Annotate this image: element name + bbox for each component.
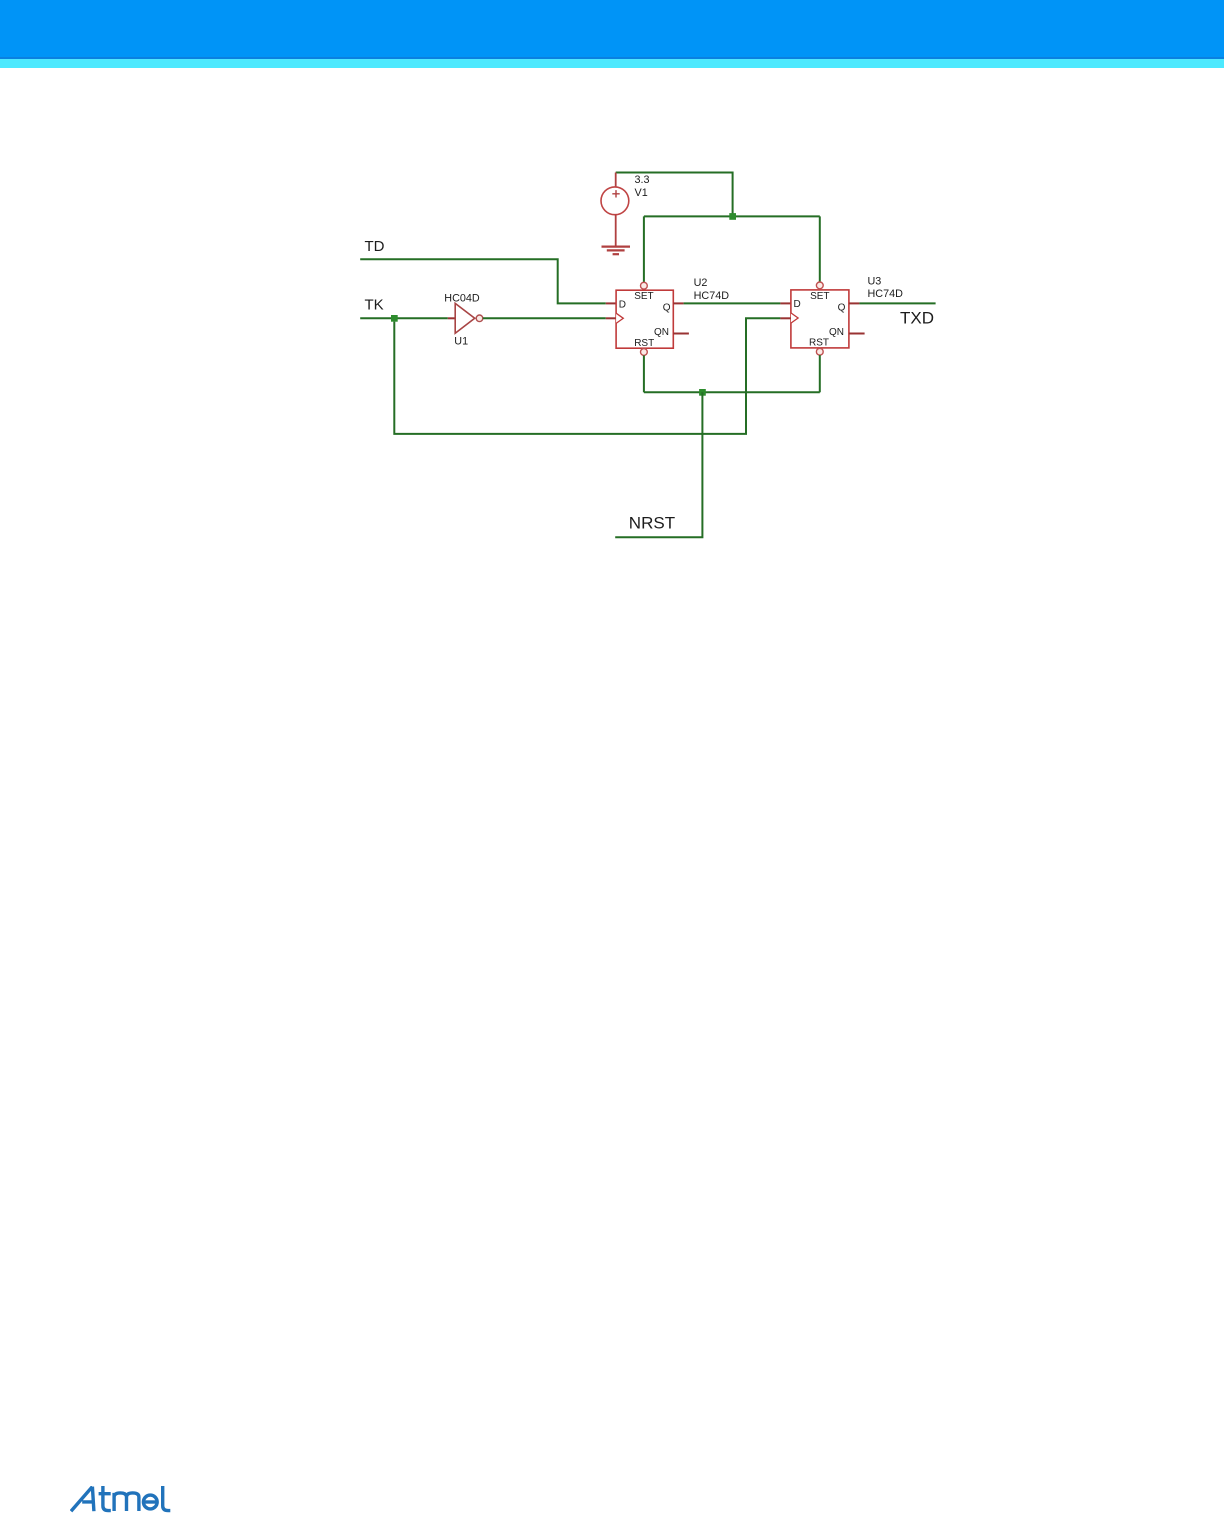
U2 RST bubble — [641, 349, 648, 356]
pin U1 input stub — [448, 317, 455, 319]
svg-text:Q: Q — [663, 303, 671, 314]
node TK junction — [391, 315, 398, 322]
svg-text:HC74D: HC74D — [868, 288, 904, 300]
svg-text:TD: TD — [365, 238, 385, 255]
V1 body circle — [601, 187, 629, 215]
pin V1 minus terminal — [615, 215, 617, 247]
wire U2 Q to U3 D — [684, 302, 781, 304]
V1 plus sign — [612, 190, 619, 197]
wire U3 Q to TXD — [859, 302, 935, 304]
svg-text:QN: QN — [829, 327, 844, 338]
U2 body box — [616, 290, 673, 348]
pin U2 Q stub — [673, 302, 683, 304]
wire U2 RST down — [643, 355, 645, 392]
U3 clock triangle — [791, 313, 798, 323]
svg-text:V1: V1 — [635, 187, 648, 199]
ground — [602, 247, 631, 255]
node RST junction — [699, 389, 706, 396]
pin U3 clock stub — [780, 317, 791, 319]
svg-text:TK: TK — [365, 296, 384, 313]
pin U3 D stub — [780, 302, 791, 304]
wire VCC top from V1 to rail corner — [616, 173, 733, 217]
svg-text:D: D — [794, 299, 801, 310]
wire drop to U3 SET — [819, 216, 821, 282]
svg-text:HC74D: HC74D — [694, 290, 730, 302]
svg-text:Q: Q — [838, 302, 846, 313]
logo letter m — [114, 1493, 139, 1511]
wire U3 RST down — [819, 355, 821, 392]
header blue bar — [0, 0, 1224, 57]
logo letter l — [163, 1486, 171, 1511]
wire RST rail — [644, 391, 820, 393]
header divider line — [0, 57, 1224, 59]
U2 SET bubble — [641, 282, 648, 289]
flip-flop U2 — [616, 277, 729, 355]
svg-text:RST: RST — [809, 338, 829, 349]
wire SET rail horizontal — [644, 215, 820, 217]
logo letter e — [143, 1495, 157, 1509]
wire NRST riser — [615, 392, 702, 537]
svg-text:RST: RST — [634, 338, 654, 349]
svg-text:QN: QN — [654, 327, 669, 338]
Atmel logo — [70, 1486, 174, 1513]
header cyan strip — [0, 59, 1224, 68]
pin U3 Q stub — [849, 302, 860, 304]
svg-text:HC04D: HC04D — [444, 293, 480, 305]
voltage source V1 — [601, 173, 650, 247]
U3 SET bubble — [816, 282, 823, 289]
inverter U1 — [444, 293, 483, 348]
pin V1 plus terminal — [615, 173, 617, 188]
svg-text:TXD: TXD — [900, 308, 934, 327]
flip-flop U3 — [791, 276, 903, 356]
svg-text:U2: U2 — [694, 277, 708, 289]
svg-text:U1: U1 — [454, 335, 468, 347]
logo letter A — [71, 1487, 94, 1512]
U3 RST bubble — [816, 348, 823, 355]
logo letter t — [99, 1486, 111, 1511]
pin U2 clock stub — [606, 317, 616, 319]
svg-text:D: D — [619, 299, 626, 310]
svg-text:SET: SET — [634, 291, 653, 302]
wire TK feedback to U3 clock — [394, 318, 780, 434]
svg-text:U3: U3 — [868, 276, 882, 288]
svg-text:SET: SET — [810, 291, 829, 302]
wire TD to U2 D — [360, 259, 606, 303]
wire U1 out to U2 clock — [483, 317, 606, 319]
pin U2 QN stub — [673, 333, 689, 335]
pin U2 D stub — [606, 302, 616, 304]
U2 clock triangle — [616, 313, 623, 323]
wire TK to U1 input — [360, 317, 448, 319]
node VCC junction — [729, 213, 736, 220]
U3 body box — [791, 290, 849, 348]
svg-text:NRST: NRST — [629, 514, 675, 533]
U1 triangle body — [455, 303, 475, 333]
pin U3 QN stub — [849, 333, 865, 335]
wire drop to U2 SET — [643, 216, 645, 282]
svg-text:3.3: 3.3 — [635, 174, 650, 186]
U1 output bubble — [476, 315, 483, 322]
